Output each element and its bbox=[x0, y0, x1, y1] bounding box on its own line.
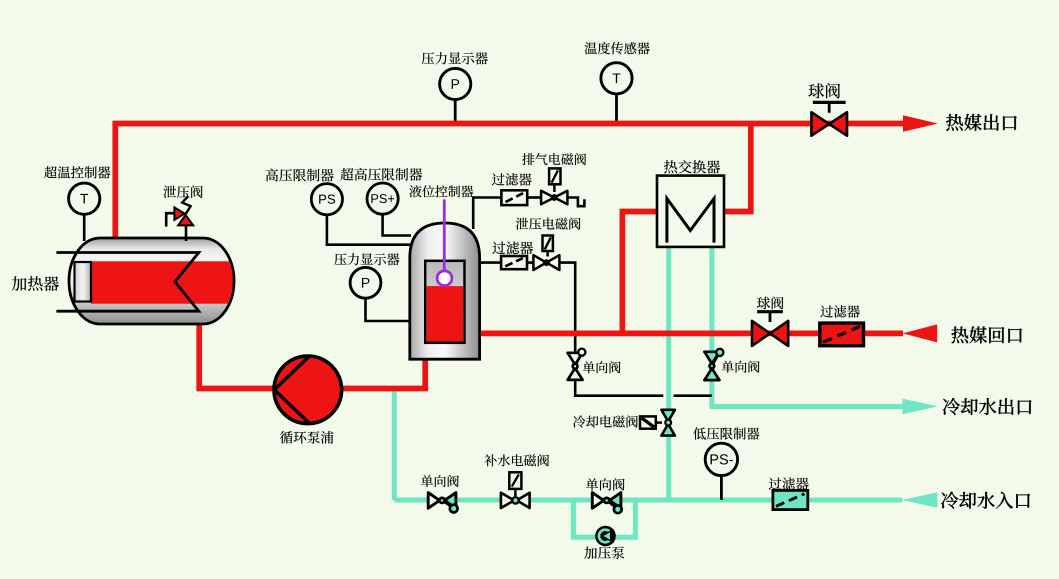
label 热交换器 bbox=[664, 160, 720, 173]
cooling solenoid valve bbox=[640, 410, 675, 436]
instrument P2 pressure display bbox=[350, 267, 381, 298]
booster pump bbox=[595, 526, 616, 547]
relief valve spring zigzag bbox=[182, 196, 190, 214]
label 过滤器 relief bbox=[492, 242, 533, 255]
label 超温控制器 bbox=[44, 166, 110, 178]
label 过滤器 vent bbox=[492, 173, 532, 186]
wire low pressure limiter PS- stem to bottom line bbox=[720, 475, 723, 500]
label 低压限制器 bbox=[693, 427, 759, 439]
label 泄压电磁阀 bbox=[516, 218, 581, 230]
level controller liquid fill bbox=[427, 286, 464, 341]
wire cooling water outlet line from heat exchanger right port down and right to outlet bbox=[712, 246, 903, 407]
label 热媒回口 bbox=[951, 326, 1022, 343]
label 球阀 return bbox=[757, 297, 783, 310]
instrument PS high pressure limiter bbox=[311, 184, 342, 215]
label 冷却水入口 bbox=[941, 492, 1030, 509]
wire bottom cooling water supply line bbox=[394, 498, 902, 503]
label 液位控制器 bbox=[409, 185, 473, 197]
heat exchanger box bbox=[657, 176, 724, 247]
wire relief line from tank to relief filter bbox=[480, 261, 502, 264]
filter on cooling inlet line bbox=[773, 490, 808, 509]
relief valve body triangles bbox=[174, 207, 193, 225]
wire heater outlet pipe via circulation pump up to tank bottom bbox=[199, 321, 425, 389]
instrument T2 temperature sensor bbox=[601, 63, 632, 94]
wire cooling water line from heat exchanger left port down to bottom supply line bbox=[666, 246, 671, 500]
label 压力显示器 top bbox=[422, 52, 488, 64]
label 压力显示器 tank bbox=[334, 253, 399, 265]
wire overtemperature controller T1 stem to heater bbox=[83, 214, 86, 242]
label 高压限制器 bbox=[266, 169, 334, 182]
check valve on relief discharge line bbox=[568, 349, 586, 380]
label 单向阀 relief bbox=[583, 361, 621, 373]
label 超高压限制器 bbox=[340, 168, 422, 181]
circulation pump body bbox=[274, 356, 342, 424]
label 泄压阀 bbox=[163, 185, 202, 198]
label 冷却水出口 bbox=[943, 398, 1032, 415]
wire make-up water drop line from hot pipe junction down bbox=[392, 389, 397, 501]
label 过滤器 return bbox=[820, 305, 860, 317]
exhaust solenoid valve bbox=[541, 168, 567, 204]
filter on relief line bbox=[501, 256, 527, 269]
wire booster pump bypass loop bbox=[573, 500, 635, 537]
label 单向阀 makeup right bbox=[586, 478, 625, 490]
instrument T1 overtemperature controller bbox=[69, 183, 100, 214]
wire vent line filter to exhaust solenoid valve bbox=[527, 196, 542, 199]
heater red core bbox=[91, 261, 236, 303]
wire extra-high pressure limiter PS+ connection to tank bbox=[383, 214, 411, 236]
wire relief discharge line down to check valve bbox=[559, 263, 575, 354]
level sensor float bbox=[437, 271, 452, 286]
ball valve on top outlet pipe bbox=[811, 102, 847, 135]
level sensor probe line bbox=[443, 199, 446, 270]
wire heat exchanger riser pipe from top line bbox=[724, 124, 751, 212]
instrument P1 pressure display top bbox=[440, 68, 471, 99]
wire pressure display P2 connection to tank bbox=[366, 298, 412, 321]
wire temperature sensor T2 stem to top pipe bbox=[615, 94, 618, 123]
label 补水电磁阀 bbox=[484, 454, 549, 466]
wire from check valve down and right (segment before crossing) bbox=[575, 379, 663, 396]
label 过滤器 inlet bbox=[769, 478, 809, 491]
filter on return line bbox=[820, 323, 864, 346]
wire high pressure limiter PS connection to tank bbox=[327, 214, 411, 244]
heater element chevron outline bbox=[56, 253, 198, 312]
make-up water solenoid valve bbox=[501, 472, 530, 508]
relief valve stem bbox=[185, 225, 188, 241]
label 单向阀 makeup left bbox=[421, 475, 459, 487]
check valve left on bottom supply line bbox=[428, 493, 457, 513]
circulation pump impeller lines bbox=[274, 357, 309, 424]
label 排气电磁阀 bbox=[522, 153, 586, 165]
wire vent outlet hook after exhaust solenoid valve bbox=[567, 198, 585, 207]
label 循环泵浦 bbox=[280, 431, 334, 444]
wire top hot media outlet pipe from heater bbox=[115, 124, 903, 242]
heater element end cap bar bbox=[75, 262, 92, 302]
label 加压泵 bbox=[584, 546, 624, 559]
label 单向阀 cooling riser bbox=[722, 361, 760, 373]
wire relief line filter to relief solenoid valve bbox=[527, 261, 534, 264]
arrow cooling water inlet port bbox=[902, 492, 938, 507]
wire vent line from tank top to exhaust filter bbox=[473, 198, 502, 230]
level controller inner chamber bbox=[425, 261, 464, 343]
label 温度传感器 bbox=[585, 42, 650, 54]
wire heat exchanger left drop pipe to return line bbox=[622, 212, 657, 334]
wire hot media return line from tank to return port bbox=[479, 331, 903, 337]
relief solenoid valve bbox=[533, 236, 559, 271]
level controller tank body bbox=[410, 223, 480, 359]
wire pressure display P1 stem to top pipe bbox=[454, 99, 457, 122]
instrument PS- low pressure limiter bbox=[705, 443, 737, 475]
label 加热器 bbox=[12, 276, 59, 291]
check valve on cooling outlet riser bbox=[704, 349, 723, 380]
wire segment after cooling line crossing joining cyan riser bbox=[674, 394, 712, 397]
heater vessel body bbox=[69, 238, 234, 324]
arrow hot media return port bbox=[903, 324, 938, 342]
label 冷却电磁阀 bbox=[573, 415, 638, 427]
arrow hot media outlet port bbox=[903, 115, 938, 132]
label 球阀 top bbox=[808, 83, 840, 98]
check valve right on bottom supply line bbox=[592, 493, 621, 514]
heat exchanger coil M symbol bbox=[667, 199, 714, 243]
filter on vent line bbox=[501, 190, 527, 205]
arrow cooling water outlet port bbox=[903, 399, 938, 415]
label 热媒出口 bbox=[946, 114, 1017, 131]
wire relief valve drain elbow bbox=[166, 213, 175, 226]
ball valve on return line bbox=[752, 312, 788, 346]
instrument PS+ extra-high pressure limiter bbox=[367, 183, 398, 214]
